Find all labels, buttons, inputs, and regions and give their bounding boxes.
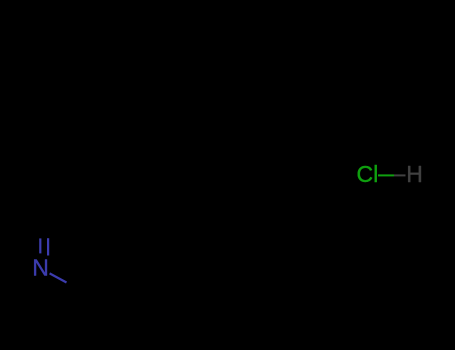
svg-text:N: N [32, 255, 49, 281]
pyridine ring: C2=N1 double bond, inner line [47, 238, 49, 255]
pyridine ring: N1-C6 bond half near N [50, 273, 67, 282]
HCl: Cl-H bond, Cl half (green) [378, 174, 394, 176]
svg-text:H: H [406, 161, 423, 187]
pyridine ring: C2=N1 double bond, outer line [39, 238, 41, 253]
svg-text:Cl: Cl [357, 161, 379, 187]
HCl: Cl-H bond, H half (gray) [394, 174, 406, 176]
